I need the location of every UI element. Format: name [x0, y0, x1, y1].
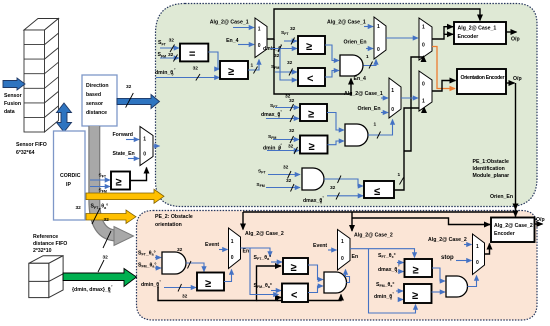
mux B — [419, 18, 432, 60]
svg-text:Orien_En: Orien_En — [490, 194, 513, 200]
label SFT theta x — [378, 253, 404, 263]
CORDIC outputs to comparator — [90, 173, 110, 194]
svg-text:32: 32 — [283, 165, 289, 171]
svg-text:SFM_θa°: SFM_θa° — [254, 283, 272, 289]
label SFM (sub2) — [268, 128, 299, 143]
label SFM 32 (sub1) — [271, 60, 297, 76]
svg-text:°: ° — [111, 285, 113, 289]
svg-text:32: 32 — [286, 178, 292, 184]
svg-text:PE_1:Obstacle: PE_1:Obstacle — [473, 159, 509, 165]
label dmin (sub2) — [263, 144, 299, 155]
svg-text:0: 0 — [391, 107, 394, 113]
mux B out to encoder1 — [432, 27, 453, 39]
label sensor fusion data — [4, 93, 22, 115]
label Alg case1 (mux C) — [344, 91, 388, 98]
select lines from LE1 — [394, 56, 424, 190]
comparator LT1 (sub1) — [298, 68, 325, 86]
top Alg_2@Case_2 net — [243, 211, 516, 213]
svg-text:O/p: O/p — [511, 37, 520, 43]
PE_2 region background — [137, 211, 538, 321]
svg-text:Alg_2@ Case_2: Alg_2@ Case_2 — [428, 237, 467, 243]
svg-text:distance: distance — [86, 110, 107, 116]
svg-text:O/p: O/p — [536, 217, 545, 223]
label Orien_En (mux C) — [358, 106, 389, 113]
label dmax bottom — [303, 193, 363, 205]
svg-text:En_4: En_4 — [226, 38, 239, 44]
svg-text:1: 1 — [476, 244, 479, 250]
orientation encoder — [457, 69, 506, 94]
label Forward — [113, 132, 140, 140]
svg-text:SFM: SFM — [99, 188, 107, 194]
En wire from mux P1 — [241, 248, 279, 295]
svg-text:1: 1 — [143, 137, 146, 143]
vertical double arrow — [57, 103, 72, 132]
svg-text:<: < — [307, 73, 313, 85]
svg-text:=: = — [189, 49, 195, 61]
label Alg case1 (mux A) — [327, 20, 373, 27]
mux C out — [401, 97, 418, 99]
svg-text:Sensor FIFO: Sensor FIFO — [16, 142, 47, 148]
svg-text:32: 32 — [168, 52, 174, 58]
svg-text:32: 32 — [103, 255, 109, 261]
comparator EQ — [180, 44, 208, 62]
svg-text:distance FIFO: distance FIFO — [33, 241, 67, 247]
label SFM 32 — [158, 52, 180, 62]
svg-text:SFT_θa°: SFT_θa° — [254, 255, 272, 261]
svg-text:Orien_En: Orien_En — [344, 40, 367, 46]
label PE_2 title — [155, 214, 193, 228]
label En_4 — [226, 38, 254, 45]
comparator GEQ1 — [405, 259, 433, 277]
svg-text:x: x — [390, 297, 392, 301]
AND gate P2 — [324, 272, 347, 293]
svg-text:0: 0 — [278, 115, 280, 119]
svg-text:stop: stop — [441, 255, 454, 261]
label SFT theta a — [76, 204, 110, 225]
wire GE0 to forward mux select — [130, 168, 147, 181]
mux D out to orientation encoder — [432, 81, 456, 92]
comparator GEP — [197, 273, 224, 291]
svg-text:0: 0 — [172, 73, 174, 77]
wire EQ out to GE1 — [208, 52, 219, 69]
En wire from mux P2 — [350, 249, 416, 313]
G3 out to LE1 — [324, 176, 363, 192]
svg-text:≥: ≥ — [205, 278, 211, 290]
sensor FIFO stack — [24, 19, 59, 133]
label dmin theta x 2 — [374, 292, 403, 301]
svg-text:SFM_θa°: SFM_θa° — [138, 263, 156, 269]
mux P1 — [229, 228, 241, 269]
orange wire to orientation encoder — [432, 47, 455, 89]
comparator GE3 (sub2) — [300, 104, 327, 121]
svg-text:SFT_θa°: SFT_θa° — [138, 251, 156, 257]
svg-text:0: 0 — [476, 260, 479, 266]
label SFT 32 — [158, 38, 179, 53]
mux D — [419, 71, 432, 111]
comparator GE2 (sub1) — [298, 36, 325, 54]
svg-text:Encoder: Encoder — [458, 34, 479, 40]
label Event (mux P2) — [313, 243, 337, 250]
svg-text:x: x — [396, 270, 398, 274]
svg-text:Fusion: Fusion — [4, 101, 21, 107]
mux S out to encoder2 — [485, 244, 490, 255]
svg-text:≥: ≥ — [116, 177, 122, 189]
AND gate G3 — [302, 168, 324, 190]
svg-text:32: 32 — [287, 60, 293, 66]
comparator LTP — [282, 284, 308, 303]
G1 output to mux A select — [364, 54, 377, 69]
En to encoder2 black wire — [353, 218, 491, 225]
svg-text:32: 32 — [177, 247, 183, 253]
svg-text:O/p: O/p — [513, 76, 522, 82]
svg-text:32: 32 — [193, 66, 199, 72]
svg-text:32: 32 — [182, 294, 188, 300]
Alg_2@ Case_2 arrow into mux P1 — [243, 212, 284, 237]
svg-text:En: En — [243, 249, 250, 255]
svg-text:IP: IP — [66, 182, 71, 188]
svg-text:32: 32 — [330, 185, 336, 191]
PE_1 region background — [156, 4, 538, 207]
label SFT (sub2) — [270, 98, 299, 111]
wire GE1 to mux M1 select — [248, 60, 259, 74]
AND gate P1 — [162, 252, 186, 274]
label SFM theta x — [376, 282, 403, 291]
encoder1 O/p — [506, 32, 520, 43]
svg-text:≤: ≤ — [374, 186, 380, 198]
svg-text:PE_2: Obstacle: PE_2: Obstacle — [155, 214, 193, 220]
label dmin theta x — [141, 280, 196, 300]
GEP out to mux P1 select — [224, 270, 232, 282]
svg-text:0: 0 — [258, 43, 261, 49]
svg-text:1: 1 — [377, 24, 380, 30]
black dmin distribution net — [158, 266, 341, 301]
Q out to mux S select — [468, 276, 477, 287]
mux P2 — [338, 230, 351, 271]
comparator GEQ2 — [404, 284, 432, 303]
svg-text:1: 1 — [366, 54, 369, 60]
svg-text:1: 1 — [422, 25, 425, 31]
svg-text:1: 1 — [422, 99, 425, 105]
svg-text:32: 32 — [289, 128, 295, 134]
encoder2 O/p — [535, 217, 545, 224]
svg-text:0: 0 — [231, 255, 234, 261]
comparator GE4 (sub2) — [300, 136, 328, 154]
svg-text:1: 1 — [258, 27, 261, 33]
svg-text:Orientation Encoder: Orientation Encoder — [461, 75, 505, 81]
svg-text:2*32*10: 2*32*10 — [33, 248, 52, 254]
green bus arrow — [63, 255, 137, 294]
svg-text:sensor: sensor — [86, 101, 103, 107]
svg-text:Alg_2@ Case_1: Alg_2@ Case_1 — [458, 26, 497, 32]
svg-text:State_En: State_En — [113, 151, 135, 157]
label dmax (sub2) — [261, 110, 299, 122]
svg-text:Alg_2@ Case_1: Alg_2@ Case_1 — [210, 20, 249, 26]
G2 output to mux C select — [368, 120, 393, 139]
orientation encoder O/p and Orien_En line down — [506, 76, 522, 217]
label SFM theta a — [138, 263, 161, 269]
label sensor FIFO — [16, 142, 47, 156]
svg-text:0: 0 — [422, 43, 425, 49]
svg-text:0: 0 — [143, 152, 146, 158]
svg-text:≥: ≥ — [228, 66, 234, 78]
svg-text:1: 1 — [398, 172, 401, 178]
svg-text:1: 1 — [374, 122, 377, 128]
AND gate G2 — [327, 113, 368, 147]
label SFT — [258, 165, 300, 179]
svg-text:32: 32 — [126, 84, 132, 90]
svg-text:<: < — [291, 290, 297, 302]
svg-text:orientation: orientation — [155, 222, 182, 228]
svg-text:Reference: Reference — [33, 234, 58, 240]
label Orien_En (bottom) — [490, 194, 513, 200]
AND gate G1 — [325, 45, 363, 77]
svg-text:a: a — [109, 290, 112, 294]
svg-text:Alg_2@ Case_1: Alg_2@ Case_1 — [327, 20, 366, 26]
comparator GE0 — [111, 172, 130, 190]
mux M1 — [255, 18, 267, 58]
svg-text:32: 32 — [289, 98, 295, 104]
svg-text:Sensor: Sensor — [4, 93, 22, 99]
label SFT theta a 2 — [254, 255, 283, 262]
M0 output into region — [153, 145, 160, 147]
comparator LE1 — [364, 181, 394, 198]
svg-text:SFM_θx°: SFM_θx° — [376, 282, 394, 288]
svg-text:≥: ≥ — [308, 109, 314, 121]
label SFT theta a — [138, 251, 161, 258]
svg-text:0: 0 — [422, 82, 425, 88]
encoder1 Alg_2@ Case_1 — [454, 22, 506, 44]
svg-text:SFT_θx°: SFT_θx° — [378, 253, 396, 259]
comparator GE1 — [220, 61, 248, 79]
svg-text:32: 32 — [290, 26, 296, 32]
32-bit bus arrow into PE_1 — [117, 84, 160, 109]
label SFM — [256, 178, 300, 192]
svg-text:1: 1 — [251, 63, 254, 69]
svg-text:Encoder: Encoder — [494, 231, 515, 237]
AND gate Q — [446, 276, 468, 297]
svg-text:1: 1 — [341, 239, 344, 245]
label Orien_En (mux A) — [344, 40, 374, 49]
svg-text:0: 0 — [377, 47, 380, 53]
mux A — [374, 17, 386, 59]
reference distance FIFO cube — [29, 256, 63, 298]
svg-text:32: 32 — [169, 38, 175, 44]
svg-text:32: 32 — [288, 144, 294, 150]
label Alg case2 (mux S) — [428, 237, 472, 245]
comparator GEP2 — [283, 258, 308, 274]
svg-text:32: 32 — [104, 217, 110, 223]
svg-text:1: 1 — [391, 88, 394, 94]
label dmin theta0 — [155, 66, 220, 81]
GEQ outputs to AND Q — [432, 268, 446, 292]
GEP2 and LTP outputs to AND P2 — [308, 265, 323, 293]
sensor fusion input arrow — [3, 78, 25, 90]
svg-text:based: based — [86, 92, 101, 98]
svg-text:Alg_2@ Case_2: Alg_2@ Case_2 — [245, 231, 284, 237]
svg-text:SFT: SFT — [99, 173, 107, 179]
P1 out to GEP — [177, 247, 204, 272]
label State_En — [113, 151, 140, 159]
label dmin (sub1) — [263, 44, 297, 80]
svg-text:CORDIC: CORDIC — [60, 173, 81, 179]
orange bus arrow 1 — [86, 189, 164, 203]
label Alg_2@ Case_1 — [210, 20, 254, 28]
encoder2 Alg_2@ Case_2 — [491, 218, 535, 243]
svg-text:En: En — [352, 254, 359, 260]
svg-text:Forward: Forward — [113, 132, 133, 138]
En_4 net from M1 — [267, 9, 480, 100]
svg-text:Identification: Identification — [473, 166, 505, 172]
svg-text:≥: ≥ — [291, 262, 297, 274]
Alg_2@ Case_2 arrow into mux P2 — [352, 212, 393, 239]
mux S — [473, 234, 485, 275]
svg-text:1: 1 — [231, 239, 234, 245]
svg-text:{dmin, dmax}_θ: {dmin, dmax}_θ — [72, 287, 111, 293]
gray pipe arrow — [94, 126, 133, 248]
label PE_1 module — [473, 159, 510, 179]
mux C — [389, 78, 401, 118]
label Event (mux P1) — [205, 242, 228, 250]
svg-text:Event: Event — [205, 242, 219, 248]
svg-text:Event: Event — [313, 243, 327, 249]
svg-text:Orien_En: Orien_En — [358, 106, 381, 112]
svg-text:En_4: En_4 — [354, 76, 367, 82]
direction based sensor distance block — [82, 75, 117, 126]
svg-text:≥: ≥ — [413, 265, 419, 277]
svg-text:Alg_2@ Case_1: Alg_2@ Case_1 — [344, 91, 383, 97]
label SFT 32 (sub1) — [281, 26, 297, 45]
svg-text:Module_planar: Module_planar — [473, 173, 510, 179]
svg-text:data: data — [4, 109, 15, 115]
svg-text:32: 32 — [274, 53, 280, 59]
svg-text:0: 0 — [320, 201, 322, 205]
label dmax theta x — [378, 265, 404, 274]
mux A out — [386, 37, 418, 39]
svg-text:0: 0 — [341, 256, 344, 262]
svg-text:6*32*64: 6*32*64 — [16, 150, 35, 156]
label stop — [441, 255, 472, 261]
svg-text:Alg_2@ Case_2: Alg_2@ Case_2 — [354, 233, 393, 239]
reference distance FIFO label — [33, 234, 67, 254]
svg-text:≥: ≥ — [306, 41, 312, 53]
forward state mux M0 — [140, 127, 153, 166]
orange bus arrow 2 — [86, 210, 136, 224]
svg-text:32: 32 — [76, 205, 82, 211]
svg-text:≥: ≥ — [412, 290, 418, 302]
CORDIC IP block — [54, 131, 86, 220]
svg-text:≥: ≥ — [309, 141, 315, 153]
P2 out to mux P2 select — [346, 270, 350, 283]
svg-text:Alg_2@ Case_2: Alg_2@ Case_2 — [494, 223, 533, 229]
svg-text:Direction: Direction — [86, 83, 108, 89]
label SFM theta a 2 — [254, 283, 282, 291]
